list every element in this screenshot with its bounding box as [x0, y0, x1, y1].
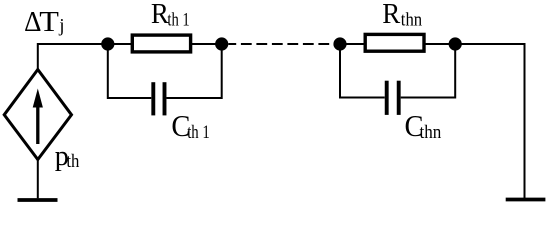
svg-text:j: j [58, 16, 64, 37]
svg-text:R: R [382, 0, 400, 30]
label R_thn [382, 0, 422, 30]
wire node A down and across to capacitor C1 left plate [108, 44, 152, 98]
label C_thn [405, 109, 442, 143]
resistor Rn [365, 34, 424, 51]
node D [449, 37, 462, 50]
svg-text:thn: thn [401, 8, 422, 29]
wire dashed continuation between node B and node C [228, 43, 333, 45]
svg-text:T: T [39, 5, 59, 37]
label R_th1 [151, 0, 190, 30]
capacitor C1 [153, 82, 164, 115]
label delta T_j [24, 5, 64, 38]
wire resistor R1 to node B [191, 43, 222, 45]
ground right [506, 198, 546, 202]
current source p_th (diamond) [4, 70, 71, 160]
capacitor Cn [387, 81, 399, 115]
svg-text:R: R [151, 0, 169, 30]
svg-text:th 1: th 1 [187, 121, 210, 142]
node C [333, 37, 346, 50]
node A [101, 37, 114, 50]
svg-text:thn: thn [420, 121, 442, 142]
current source arrow [33, 89, 43, 145]
node B [215, 37, 228, 50]
resistor R1 [132, 35, 190, 52]
wire node A to resistor R1 [108, 43, 133, 45]
svg-text:th: th [66, 150, 79, 171]
wire capacitor C1 right plate up to node B [167, 44, 222, 98]
ground left [18, 198, 58, 202]
wire node C down and across to capacitor Cn left plate [340, 44, 385, 98]
wire node C to resistor Rn [340, 43, 365, 45]
wire from current source top to node A [38, 44, 108, 70]
wire current source bottom to left ground [37, 160, 39, 199]
wire node D to right ground [455, 44, 524, 198]
wire resistor Rn to node D [424, 43, 455, 45]
wire capacitor Cn right plate up to node D [401, 44, 456, 98]
label p_th [55, 141, 80, 172]
label C_th1 [171, 109, 209, 143]
svg-text:th 1: th 1 [167, 8, 189, 29]
